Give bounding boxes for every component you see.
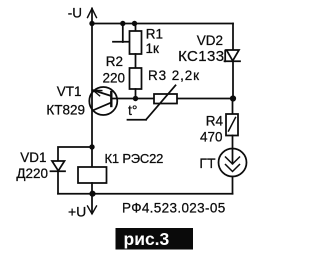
earphone GT [219, 149, 247, 177]
wire bottom rail [58, 193, 233, 195]
wire tap stub on R1 [113, 24, 130, 43]
relay coil K1 [78, 147, 107, 194]
svg-text:R1: R1 [146, 27, 163, 42]
wire left rail [91, 24, 93, 148]
wire GT to bottom rail [232, 177, 234, 194]
svg-text:КТ829: КТ829 [46, 103, 85, 118]
wire top rail [92, 23, 233, 25]
wire R1 to R2 [135, 54, 137, 68]
net -U arrow [88, 9, 97, 24]
junction dot tap [120, 21, 125, 26]
resistor R2 [130, 68, 142, 99]
junction dot right rail [230, 95, 236, 101]
wire VD1 branch top [58, 147, 92, 161]
svg-text:VD1: VD1 [20, 150, 46, 165]
junction dot top-left [89, 21, 94, 26]
thermistor R3 [128, 85, 178, 119]
svg-text:РФ4.523.023-05: РФ4.523.023-05 [122, 201, 226, 216]
net +U arrow [88, 194, 97, 214]
svg-text:VT1: VT1 [57, 84, 82, 99]
svg-text:470: 470 [200, 130, 223, 145]
svg-text:КС133: КС133 [178, 48, 224, 65]
svg-text:220: 220 [102, 71, 125, 86]
svg-text:R3 2,2к: R3 2,2к [148, 68, 200, 83]
junction dot VD1 branch [89, 144, 94, 149]
resistor R4 [226, 114, 238, 136]
wire right rail to R4 [232, 99, 234, 115]
svg-text:VD2: VD2 [197, 33, 223, 48]
junction dot R1 top [132, 21, 137, 26]
transistor VT1 [89, 87, 117, 115]
svg-text:ГТ: ГТ [199, 155, 216, 171]
zener diode VD2 [225, 24, 241, 99]
svg-text:R4: R4 [206, 114, 224, 129]
wire R4 to GT [232, 136, 234, 150]
resistor R1 [130, 24, 142, 55]
svg-text:-U: -U [68, 6, 82, 21]
svg-text:R2: R2 [106, 54, 123, 69]
junction dot base node [133, 96, 138, 101]
junction dot bottom rail [89, 191, 95, 197]
svg-text:t°: t° [128, 102, 138, 118]
diode VD1 [51, 161, 66, 194]
wire base node to right rail [112, 98, 234, 100]
svg-text:1к: 1к [146, 41, 160, 56]
svg-text:Д220: Д220 [16, 166, 48, 181]
svg-text:рис.3: рис.3 [124, 229, 170, 249]
svg-text:+U: +U [68, 204, 86, 220]
svg-text:К1 РЭС22: К1 РЭС22 [105, 151, 164, 166]
caption box ris.3 [116, 228, 194, 250]
